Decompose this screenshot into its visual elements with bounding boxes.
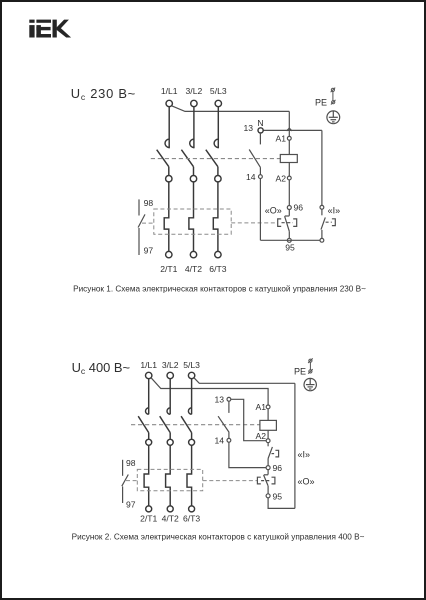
svg-text:6/T3: 6/T3 (183, 514, 200, 524)
svg-text:13: 13 (243, 123, 253, 133)
start button actuator bracket (fig2) (272, 450, 279, 457)
start button bottom circle (fig1) (320, 238, 324, 242)
svg-text:6/T3: 6/T3 (209, 264, 226, 274)
contact circle A2 (fig1) (287, 176, 291, 180)
start button NO contact (fig1) (321, 209, 325, 238)
svg-text:2/T1: 2/T1 (140, 514, 157, 524)
start button top circle (fig1) (320, 205, 324, 209)
contact circle 14 (fig2) (227, 438, 231, 442)
svg-text:3/L2: 3/L2 (162, 360, 179, 370)
stop button NC contact (fig1) (285, 210, 290, 239)
svg-text:A1: A1 (255, 402, 266, 412)
pole L1 lower circle (fig1) (166, 176, 172, 182)
svg-text:97: 97 (126, 500, 136, 510)
svg-text:96: 96 (273, 463, 283, 473)
terminal circle 3/L2 (fig1) (191, 100, 197, 106)
svg-text:«I»: «I» (328, 205, 341, 215)
PE screw terminals (fig1) (331, 88, 336, 105)
coil KM (fig2) (260, 420, 277, 430)
wire 14 to bottom (fig1) (259, 179, 261, 241)
start button wire from N-line (fig1) (321, 130, 323, 205)
pole L2 lower circle (fig1) (190, 176, 196, 182)
contact circle A1 (fig2) (266, 405, 270, 409)
IEK logo (29, 20, 71, 38)
svg-text:A2: A2 (275, 173, 286, 183)
earth symbol (fig1) (327, 111, 340, 124)
stop button NC contact (fig2) (264, 470, 269, 494)
aux-to-box dashed link (fig2) (126, 480, 137, 482)
svg-text:A1: A1 (275, 134, 286, 144)
wire from 5/L3 to right rail (fig2) (194, 378, 295, 384)
svg-text:Uc 400 В~: Uc 400 В~ (72, 360, 130, 376)
wire 95 to right rail (fig2) (268, 498, 295, 509)
terminal circle 2/T1 (fig1) (166, 251, 172, 257)
contact circle 95 (fig2) (266, 494, 270, 498)
svg-text:14: 14 (214, 435, 224, 445)
terminal circle 1/L1 (fig2) (146, 372, 152, 378)
wire 14 to 96 node (fig2) (229, 442, 266, 467)
svg-text:5/L3: 5/L3 (183, 360, 200, 370)
terminal circle 3/L2 (fig2) (167, 372, 173, 378)
main pole L1 contact (fig1) (157, 107, 170, 176)
thermal element L2 (fig1) (189, 182, 194, 252)
svg-text:Uc 230 В~: Uc 230 В~ (71, 86, 136, 102)
terminal circle 4/T2 (fig2) (167, 506, 173, 512)
pole L3 lower circle (fig2) (189, 439, 195, 445)
svg-text:Рисунок 2. Схема электрическая: Рисунок 2. Схема электрическая контактор… (72, 532, 365, 541)
svg-text:Рисунок 1. Схема электрическая: Рисунок 1. Схема электрическая контактор… (73, 284, 366, 293)
start button actuator bracket (fig1) (326, 219, 336, 226)
stop button actuator brackets (fig2) (257, 477, 275, 484)
aux-to-box dashed link (fig1) (142, 222, 154, 224)
terminal circle 1/L1 (fig1) (166, 100, 172, 106)
main pole L3 contact (fig1) (206, 107, 219, 176)
thermal relay dashed box (fig2) (137, 469, 202, 490)
pole L2 lower circle (fig2) (167, 439, 173, 445)
svg-text:95: 95 (273, 491, 283, 501)
wire coil to A2 (fig2) (267, 430, 269, 439)
N line (fig1) (263, 129, 322, 131)
thermal element L1 (fig2) (144, 445, 149, 506)
svg-text:96: 96 (294, 203, 304, 213)
svg-text:3/L2: 3/L2 (186, 86, 203, 96)
thermal trip dashed link to O button (fig1) (231, 222, 278, 224)
svg-text:1/L1: 1/L1 (140, 360, 157, 370)
terminal circle 2/T1 (fig2) (146, 506, 152, 512)
svg-text:PE: PE (294, 367, 306, 377)
main pole L2 contact (fig1) (181, 107, 194, 176)
terminal circle 5/L3 (fig2) (188, 372, 194, 378)
mechanical linkage dashed line (fig2) (131, 424, 260, 426)
terminal circle 4/T2 (fig1) (190, 251, 196, 257)
mechanical linkage dashed line (fig1) (151, 158, 280, 160)
wire from 1/L1 to control line (fig1) (172, 106, 290, 112)
svg-text:PE: PE (315, 97, 327, 107)
svg-text:4/T2: 4/T2 (185, 264, 202, 274)
wire N-line to A1 (fig1) (288, 130, 290, 136)
wire A1 to coil (fig1) (288, 140, 290, 154)
terminal circle 6/T3 (fig2) (189, 506, 195, 512)
wire A1 to coil (fig2) (267, 409, 269, 421)
svg-text:«О»: «О» (265, 206, 282, 216)
right rail wire (fig2) (294, 383, 296, 508)
start button NO contact (fig2) (268, 443, 272, 466)
contact circle A1 (fig1) (287, 136, 291, 140)
PE screw terminals (fig2) (308, 358, 313, 373)
svg-text:1/L1: 1/L1 (161, 86, 178, 96)
main pole L2 contact (fig2) (160, 379, 171, 440)
contact circle 13 (fig2) (227, 397, 231, 401)
wire 13 to A2 node (fig2) (231, 399, 266, 440)
thermal trip dashed link to O button (fig2) (203, 480, 258, 482)
pole L3 lower circle (fig1) (215, 176, 221, 182)
thermal element L1 (fig1) (164, 182, 169, 252)
svg-text:«I»: «I» (298, 450, 311, 460)
wire from 1/L1 to A1 (fig2) (151, 378, 268, 405)
wire control drop to N-line (fig1) (288, 111, 290, 130)
contact circle A2 (fig2) (266, 439, 270, 443)
svg-text:97: 97 (144, 246, 154, 256)
N terminal circle (fig1) (258, 128, 263, 133)
thermal element L3 (fig2) (187, 445, 192, 506)
aux contact 13-14 (fig2) (218, 401, 229, 438)
terminal circle 6/T3 (fig1) (215, 251, 221, 257)
svg-text:95: 95 (285, 242, 295, 252)
svg-text:N: N (257, 118, 263, 128)
contact circle 96 (fig2) (266, 466, 270, 470)
stop button actuator brackets (fig1) (278, 219, 297, 227)
contact circle 96 (fig1) (287, 206, 291, 210)
bottom control wire (fig1) (260, 239, 320, 241)
svg-text:5/L3: 5/L3 (210, 86, 227, 96)
aux contact 13-14 (fig1) (249, 133, 260, 175)
wire A2 to 96 (fig1) (288, 180, 290, 206)
terminal circle 5/L3 (fig1) (215, 100, 221, 106)
svg-text:«О»: «О» (298, 476, 315, 486)
svg-text:14: 14 (246, 172, 256, 182)
svg-text:2/T1: 2/T1 (160, 264, 177, 274)
thermal element L3 (fig1) (213, 182, 218, 252)
svg-text:98: 98 (144, 198, 154, 208)
svg-text:13: 13 (214, 394, 224, 404)
coil KM (fig1) (280, 155, 297, 163)
svg-text:A2: A2 (255, 431, 266, 441)
svg-text:98: 98 (126, 458, 136, 468)
aux contact 97-98 (fig1) (138, 199, 145, 255)
thermal relay dashed box (fig1) (154, 209, 231, 234)
svg-text:4/T2: 4/T2 (162, 514, 179, 524)
main pole L3 contact (fig2) (181, 379, 192, 440)
thermal element L2 (fig2) (166, 445, 171, 506)
contact circle 14 (fig1) (259, 175, 263, 179)
earth symbol (fig2) (304, 378, 316, 390)
main pole L1 contact (fig2) (138, 379, 149, 440)
contact circle 95 (fig1) (287, 238, 291, 242)
wire coil to A2 (fig1) (288, 163, 290, 177)
aux contact 97-98 (fig2) (122, 460, 129, 503)
junction bump at N-line (fig1) (287, 128, 292, 131)
pole L1 lower circle (fig2) (146, 439, 152, 445)
